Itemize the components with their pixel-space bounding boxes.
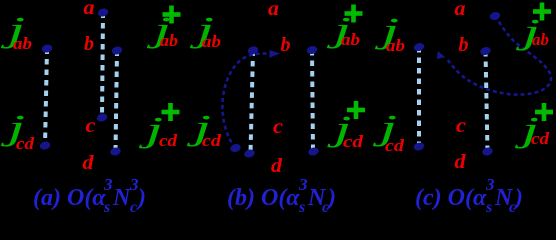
svg-text:ab: ab bbox=[386, 36, 405, 55]
current label j_cd bbox=[186, 109, 221, 150]
current label j_ab bbox=[189, 11, 221, 51]
svg-text:3: 3 bbox=[485, 175, 495, 194]
caption (c) O(alpha_s^3 N_c) bbox=[415, 175, 523, 216]
svg-text:c: c bbox=[456, 115, 466, 137]
svg-text:ab: ab bbox=[341, 30, 360, 49]
node: vertex blob bottom bbox=[243, 148, 255, 158]
svg-text:a: a bbox=[268, 0, 279, 20]
svg-text:b: b bbox=[84, 33, 94, 55]
arrowhead at b bbox=[270, 50, 281, 58]
svg-text:s: s bbox=[298, 199, 305, 216]
svg-text:(c) O(α: (c) O(α bbox=[415, 185, 487, 211]
wire: dashed quark line 2 (right) bbox=[486, 51, 488, 152]
node: curve start blob bbox=[229, 143, 241, 153]
node: vertex blob bottom bbox=[413, 141, 425, 151]
node: vertex blob top bbox=[479, 46, 491, 56]
svg-text:s: s bbox=[103, 199, 110, 216]
svg-text:ab: ab bbox=[202, 32, 221, 51]
node: vertex blob top bbox=[247, 45, 259, 55]
wire: dashed quark line 2 (a to c) bbox=[102, 13, 103, 118]
current label j_cd bbox=[372, 109, 404, 155]
wire: dashed quark line 1 (left) bbox=[417, 47, 421, 147]
node: vertex blob bottom bbox=[307, 146, 319, 156]
svg-text:cd: cd bbox=[202, 131, 222, 150]
svg-text:): ) bbox=[326, 185, 336, 211]
svg-text:cd: cd bbox=[16, 134, 35, 153]
svg-text:ab: ab bbox=[160, 31, 178, 50]
current label j_ab bbox=[374, 12, 405, 55]
svg-text:cd: cd bbox=[159, 131, 178, 150]
svg-text:a: a bbox=[84, 0, 95, 19]
node: vertex blob bottom of line 1 bbox=[39, 140, 51, 150]
svg-text:a: a bbox=[455, 0, 466, 20]
current label j+_ab bbox=[326, 5, 362, 50]
current label j_cd bbox=[0, 109, 34, 153]
svg-text:d: d bbox=[83, 152, 95, 174]
svg-text:s: s bbox=[485, 199, 492, 216]
svg-text:3: 3 bbox=[103, 175, 113, 194]
node: vertex blob bottom bbox=[481, 146, 493, 156]
svg-text:b: b bbox=[459, 34, 469, 56]
caption (a) O(alpha_s^3 N_c^3) bbox=[33, 175, 146, 216]
current label j+_cd bbox=[327, 101, 365, 151]
current label j+_ab bbox=[146, 6, 180, 51]
svg-text:(b) O(α: (b) O(α bbox=[227, 185, 300, 211]
wire: dashed quark line 1 (left) bbox=[251, 50, 254, 153]
black bar (cropped text line at bottom edge) bbox=[30, 221, 531, 227]
wire: dashed quark line 2 (right) bbox=[312, 50, 313, 152]
node: curve start blob at a bbox=[489, 11, 501, 21]
node: vertex blob at c bbox=[96, 112, 108, 122]
svg-text:): ) bbox=[513, 185, 523, 211]
svg-text:c: c bbox=[273, 116, 283, 138]
node: vertex blob top bbox=[306, 45, 318, 55]
svg-text:c: c bbox=[130, 199, 137, 216]
gluon arrow curve from a looping right back to b bbox=[437, 16, 551, 95]
svg-text:3: 3 bbox=[298, 175, 308, 194]
arrowhead at b bbox=[437, 51, 446, 59]
svg-text:b: b bbox=[281, 34, 291, 56]
node: vertex blob at a bbox=[97, 7, 109, 17]
svg-text:cd: cd bbox=[385, 136, 405, 155]
caption (b) O(alpha_s^3 N_c) bbox=[227, 175, 336, 216]
svg-text:): ) bbox=[136, 185, 146, 211]
wire: dashed quark line 3 (b to d) bbox=[116, 51, 118, 152]
current label j+_cd bbox=[514, 103, 553, 149]
gluon arrow curve from bottom-left node up to b bbox=[222, 50, 280, 148]
svg-text:d: d bbox=[455, 151, 467, 173]
current label j_ab bbox=[0, 11, 32, 53]
svg-text:ab: ab bbox=[532, 30, 549, 49]
svg-text:c: c bbox=[86, 115, 96, 137]
node: vertex blob top of line 1 bbox=[41, 43, 53, 53]
current label j+_ab bbox=[515, 3, 551, 52]
current label j+_cd bbox=[138, 103, 179, 150]
svg-text:ab: ab bbox=[13, 34, 32, 53]
node: vertex blob at d bbox=[109, 146, 121, 156]
node: vertex blob top bbox=[413, 42, 425, 52]
node: vertex blob at b bbox=[111, 45, 123, 55]
svg-text:(a) O(α: (a) O(α bbox=[33, 185, 106, 211]
svg-text:d: d bbox=[271, 155, 283, 177]
svg-text:cd: cd bbox=[343, 132, 364, 151]
wire: dashed quark line 1 (left) bbox=[45, 49, 47, 146]
svg-text:N: N bbox=[112, 185, 132, 211]
svg-text:cd: cd bbox=[531, 129, 550, 148]
